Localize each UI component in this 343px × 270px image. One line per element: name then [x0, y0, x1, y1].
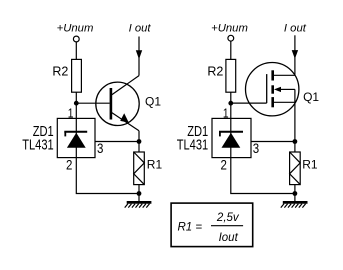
wire source to node (right)	[294, 102, 296, 141]
junction gate node (right)	[228, 101, 233, 106]
label R2 (left)	[52, 64, 68, 78]
svg-text:3: 3	[253, 140, 260, 156]
label Q1 (left)	[145, 95, 161, 109]
resistor R2 (right)	[226, 59, 236, 92]
wire R2 to ZD1 pin1 (right)	[230, 92, 232, 118]
node I out label (right)	[284, 23, 307, 35]
resistor R1 (right)	[290, 152, 301, 185]
svg-text:2: 2	[221, 157, 228, 173]
resistor R1 (left)	[134, 152, 145, 185]
label R2 (right)	[207, 64, 223, 78]
pin 2 label (right)	[221, 157, 228, 173]
svg-text:TL431: TL431	[22, 137, 54, 153]
transistor Q1 (left, NPN BJT)	[96, 76, 139, 142]
value label Iout	[219, 232, 239, 244]
svg-text:TL431: TL431	[177, 137, 209, 153]
formula box R1 = 2,5v / Iout	[171, 203, 253, 247]
pin 3 wire (left)	[95, 141, 139, 143]
terminal +Unum (right)	[228, 35, 234, 41]
svg-text:+Unum: +Unum	[211, 22, 248, 34]
value label 2,5v	[216, 212, 240, 224]
svg-text:I out: I out	[129, 23, 152, 35]
svg-text:Iout: Iout	[219, 232, 239, 244]
wire I out to drain with arrow (right)	[292, 35, 298, 75]
pin 3 label (right)	[253, 140, 260, 156]
wire I out to collector with arrow (left)	[136, 37, 142, 76]
wire terminal to R2 (right)	[230, 41, 232, 59]
junction ground node (left)	[137, 191, 142, 196]
svg-text:R2: R2	[52, 64, 68, 78]
svg-text:R1: R1	[147, 157, 163, 171]
wire base lead (left)	[76, 102, 109, 104]
label Q1 (right)	[303, 90, 319, 104]
label TL431 (right)	[177, 137, 209, 153]
ground (right)	[281, 202, 308, 207]
resistor R2 (left)	[72, 59, 82, 92]
wire gate lead (right)	[231, 102, 267, 104]
terminal +Unum (left)	[73, 36, 79, 42]
shunt regulator ZD1 TL431 (left)	[57, 118, 95, 157]
pin 2 wire to ground rail (right)	[231, 158, 295, 194]
transistor Q1 (right, N-MOSFET)	[246, 62, 299, 115]
svg-text:R2: R2	[207, 64, 223, 78]
pin 2 label (left)	[66, 157, 73, 173]
label R1 (left)	[147, 157, 163, 171]
value label R1 =	[178, 222, 203, 234]
svg-text:R1 =: R1 =	[178, 222, 203, 234]
wire terminal to R2 (left)	[75, 42, 77, 60]
svg-text:Q1: Q1	[145, 95, 161, 109]
junction ground node (right)	[293, 191, 298, 196]
wire node to R1 (right)	[294, 142, 296, 153]
node +Unum label (right)	[211, 22, 248, 34]
pin 1 label (left ZD1)	[68, 106, 74, 120]
label ZD1 (right)	[187, 124, 208, 140]
svg-text:2,5v: 2,5v	[216, 212, 240, 224]
ground (left)	[125, 202, 152, 207]
pin 3 label (left)	[97, 140, 104, 156]
junction base node (left)	[74, 101, 79, 106]
svg-text:R1: R1	[302, 157, 318, 171]
wire R2 to ZD1 pin1 (left)	[75, 92, 77, 118]
wire R1 to ground (right)	[294, 185, 296, 202]
junction source node (right)	[293, 139, 298, 144]
junction emitter node (left)	[137, 139, 142, 144]
node +Unum label (left)	[57, 23, 94, 35]
label ZD1 (left)	[33, 124, 54, 140]
svg-text:3: 3	[97, 140, 104, 156]
svg-text:Q1: Q1	[303, 90, 319, 104]
svg-text:2: 2	[66, 157, 73, 173]
label TL431 (left)	[22, 137, 54, 153]
wire node to R1 (left)	[138, 142, 140, 153]
pin 3 wire (right)	[251, 141, 295, 143]
svg-text:+Unum: +Unum	[57, 23, 94, 35]
pin 1 label (right ZD1)	[223, 107, 229, 121]
pin 2 wire to ground rail (left)	[76, 158, 139, 194]
label R1 (right)	[302, 157, 318, 171]
svg-text:I out: I out	[284, 23, 307, 35]
shunt regulator ZD1 TL431 (right)	[212, 118, 251, 157]
wire R1 to ground (left)	[138, 185, 140, 202]
node I out label (left)	[129, 23, 152, 35]
fraction bar	[211, 225, 243, 227]
